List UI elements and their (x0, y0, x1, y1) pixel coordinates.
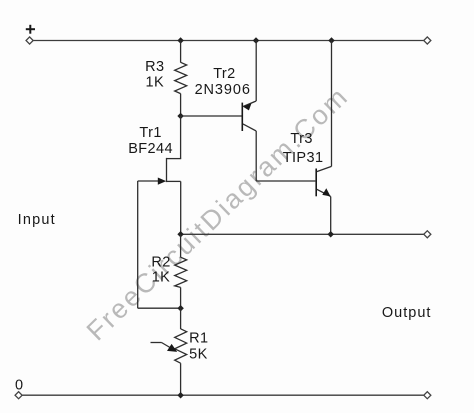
svg-text:Output: Output (382, 305, 432, 321)
svg-text:2N3906: 2N3906 (195, 82, 251, 98)
node junction R2/R1/gate loop (177, 305, 184, 312)
svg-text:1K: 1K (146, 75, 165, 91)
resistor R2 (175, 257, 187, 287)
svg-text:FreeCircuitDiagram.Com: FreeCircuitDiagram.Com (81, 81, 355, 347)
svg-text:1K: 1K (152, 269, 171, 285)
terminal bottom-left 0 (15, 392, 22, 399)
node junction source/output (177, 231, 184, 238)
svg-text:5K: 5K (189, 347, 208, 363)
label Tr2 2N3906 (195, 66, 251, 98)
svg-text:TIP31: TIP31 (283, 150, 324, 166)
svg-text:Tr1: Tr1 (139, 125, 161, 141)
wire from top rail to R3 (180, 41, 182, 63)
label R3 1K (145, 59, 164, 91)
node junction Tr3 emitter/output (327, 231, 334, 238)
watermark FreeCircuitDiagram.Com (81, 81, 355, 347)
terminal + top-left (26, 37, 33, 44)
transistor Q Tr3 TIP31 (316, 41, 331, 235)
svg-text:Input: Input (18, 212, 56, 228)
resistor R3 (175, 62, 187, 93)
svg-text:Tr2: Tr2 (213, 66, 235, 82)
node junction top of R3 (177, 37, 184, 44)
node junction top of Tr2 emitter (253, 37, 260, 44)
terminal bottom-right (424, 392, 431, 399)
svg-text:R2: R2 (151, 254, 170, 270)
label Tr1 BF244 (128, 125, 173, 157)
label R2 1K (151, 254, 170, 285)
label + (26, 25, 35, 34)
svg-text:Tr3: Tr3 (290, 131, 312, 147)
terminal output right (424, 231, 431, 238)
wire R1 bottom to rail (180, 363, 182, 395)
svg-text:0: 0 (15, 378, 23, 394)
resistor R1 potentiometer (175, 329, 187, 363)
wire gate feedback loop (138, 181, 181, 308)
transistor JFET Tr1 BF244 (138, 116, 182, 234)
wire bottom rail (22, 394, 425, 396)
svg-text:R3: R3 (145, 59, 164, 75)
node junction bottom R1 (177, 392, 184, 399)
svg-text:R1: R1 (189, 331, 208, 347)
wire output node to R2 (180, 234, 182, 257)
wire Tr2 base (181, 115, 242, 117)
wire node to R1 (180, 308, 182, 329)
node junction R3 / Tr1 drain / Tr2 base (177, 113, 184, 120)
wire top supply rail (33, 40, 425, 42)
wiper arrow of R1 (151, 343, 178, 352)
wire output rail (181, 233, 425, 235)
label R1 5K (189, 331, 208, 363)
node junction top of Tr3 collector (328, 37, 335, 44)
terminal top-right (424, 37, 431, 44)
wire R3 bottom to node (180, 94, 182, 116)
wire R2 bottom to node (180, 287, 182, 308)
svg-text:BF244: BF244 (128, 141, 173, 157)
wire Tr2 collector to Tr3 base (256, 180, 315, 182)
label Tr3 TIP31 (283, 131, 324, 166)
transistor Q Tr2 2N3906 (242, 41, 256, 182)
